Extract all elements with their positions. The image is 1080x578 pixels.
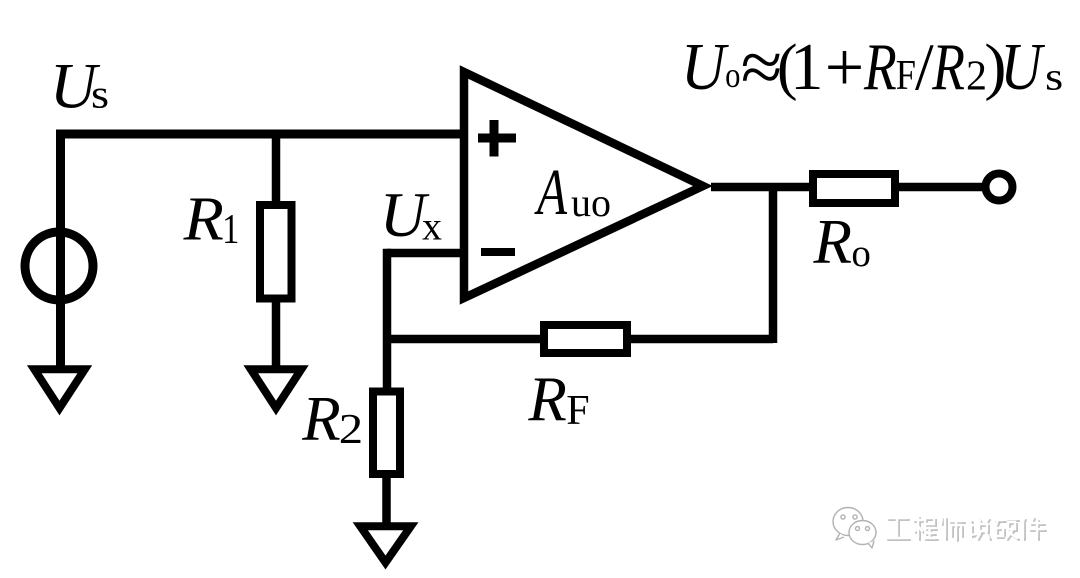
svg-text:o: o [851,232,871,275]
label Us [50,51,109,123]
label Auo (op-amp gain) [534,155,611,229]
svg-text:uo: uo [571,180,611,225]
svg-text:R: R [183,184,224,253]
label R2 [301,384,363,454]
svg-text:o: o [725,56,740,96]
op-amp U1 triangle [464,72,703,298]
voltage source US1 circle [25,232,93,300]
wire Ux node vertical to R2 [383,249,392,392]
resistor Ro body [813,174,895,203]
svg-text:A: A [534,155,568,229]
output terminal circle [986,174,1013,201]
wire feedback left segment [387,335,544,344]
resistor RF body [544,325,627,353]
op-amp minus sign [481,248,515,256]
svg-text:s: s [91,72,109,116]
wire R2 bottom stub [382,474,391,526]
wire R1 top stub [272,134,281,206]
label Ux [380,179,442,250]
svg-text:R: R [863,30,897,104]
op-amp plus sign [478,120,516,157]
wire output to terminal [895,183,983,192]
label RF [527,365,589,435]
svg-text:R: R [813,207,852,277]
svg-text:U: U [1000,29,1045,104]
svg-text:1: 1 [790,30,824,104]
wire feedback vertical riser [769,187,778,343]
svg-text:/: / [915,31,934,105]
svg-text:F: F [896,53,916,99]
wire feedback right segment [627,335,773,344]
svg-text:x: x [422,204,442,249]
svg-text:F: F [566,388,589,434]
label Ro [813,207,871,277]
watermark text 工程师说硬件 (drawn strokes, embossed) [886,516,1046,541]
watermark wechat icon [833,508,876,549]
svg-text:R: R [301,384,340,454]
ground G1 (source) [34,369,85,408]
svg-text:R: R [931,30,965,104]
formula Uo≈(1+RF/R2)Us [681,28,1063,109]
ground G3 (R2) [360,526,411,562]
svg-text:≈: ≈ [741,28,783,109]
svg-text:1: 1 [222,207,239,253]
wire top net Us from source to + input [61,130,465,139]
svg-text:2: 2 [339,405,363,452]
svg-text:R: R [527,365,566,435]
resistor R1 body [260,205,292,299]
wire left vertical through source [56,130,65,368]
label R1 [183,184,240,253]
resistor R2 body [373,392,400,475]
wire R1 bottom stub [272,298,281,369]
ground G2 (R1) [251,369,301,408]
svg-text:U: U [681,30,729,104]
svg-text:+: + [825,30,864,107]
wire minus input Ux [387,249,463,258]
svg-text:s: s [1045,56,1063,99]
wire output from op-amp apex [711,183,814,192]
